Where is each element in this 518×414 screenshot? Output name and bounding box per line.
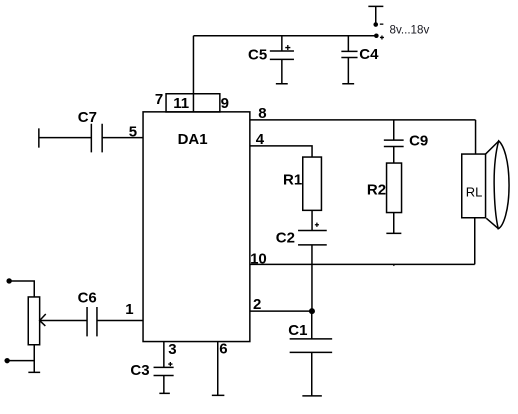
- svg-text:C9: C9: [409, 132, 428, 149]
- pin 2 wire: [250, 310, 312, 312]
- svg-text:7: 7: [155, 91, 163, 108]
- capacitor C2 plates: [298, 231, 327, 245]
- capacitor C1 stem top: [311, 311, 313, 339]
- svg-text:C7: C7: [78, 109, 97, 126]
- wire C6 to potentiometer wiper: [40, 320, 87, 322]
- capacitor C2 stem bottom: [311, 245, 313, 311]
- svg-text:C3: C3: [130, 362, 149, 379]
- capacitor C4 stem top: [347, 36, 349, 52]
- pin 8 wire: [250, 119, 476, 121]
- svg-text:R2: R2: [367, 182, 386, 199]
- capacitor C3 plates: [154, 367, 174, 375]
- svg-text:5: 5: [129, 123, 137, 140]
- capacitor C5 plates: [270, 51, 294, 59]
- potentiometer body: [28, 297, 39, 345]
- wire stem from rail to pin 11 box: [192, 36, 194, 94]
- capacitor C4 plates: [341, 51, 357, 57]
- minus sign: [380, 23, 384, 25]
- ground bar below C3: [159, 392, 170, 394]
- power terminal top bar: [368, 6, 383, 24]
- svg-text:C5: C5: [248, 46, 267, 63]
- ground bar below R2: [386, 232, 401, 234]
- top pin box divider: [192, 94, 194, 112]
- capacitor C9 plates: [384, 140, 404, 146]
- pin 5 wire: [102, 137, 143, 139]
- capacitor C3 plus sign: [168, 362, 172, 366]
- pin 10 wire: [250, 263, 475, 265]
- svg-text:6: 6: [219, 340, 227, 357]
- capacitor C3 stem bottom: [163, 375, 165, 393]
- svg-text:11: 11: [173, 95, 189, 112]
- potentiometer wiper arrowhead: [40, 314, 46, 326]
- svg-text:R1: R1: [283, 171, 302, 188]
- resistor R2 stem bottom: [393, 213, 395, 234]
- capacitor C1 stem bottom: [311, 352, 313, 396]
- top pin box (pins 7-11-9): [166, 94, 220, 112]
- svg-text:C1: C1: [288, 322, 307, 339]
- svg-text:RL: RL: [466, 184, 483, 199]
- capacitor C7 input terminal bar: [38, 128, 40, 147]
- ground bar below pin 6: [212, 394, 225, 396]
- capacitor C1 plates: [290, 339, 333, 353]
- capacitor C9 stem top: [393, 120, 395, 140]
- svg-text:10: 10: [250, 251, 267, 268]
- speaker RL feed wire bottom: [474, 218, 476, 265]
- svg-text:4: 4: [256, 131, 265, 148]
- capacitor C2 plus sign: [315, 223, 319, 227]
- svg-text:DA1: DA1: [178, 131, 208, 148]
- svg-text:C4: C4: [359, 46, 379, 63]
- potentiometer bottom stem: [33, 345, 35, 373]
- capacitor C4 stem bottom: [347, 58, 349, 84]
- resistor R2 body: [387, 163, 402, 213]
- pin 3 stem: [163, 342, 165, 368]
- potentiometer top wire: [9, 281, 34, 297]
- plus terminal dot: [374, 33, 379, 38]
- capacitor C5 stem bottom: [281, 59, 283, 83]
- svg-text:8v...18v: 8v...18v: [390, 24, 430, 37]
- resistor R1 body: [303, 157, 322, 210]
- ground bar below C1: [302, 395, 322, 397]
- capacitor C7 plates: [91, 124, 102, 153]
- capacitor C5 plus sign: [285, 45, 290, 50]
- speaker RL cone rim: [494, 141, 509, 229]
- svg-text:2: 2: [253, 296, 261, 313]
- minus terminal dot: [373, 22, 378, 27]
- ground bar below potentiometer: [28, 371, 40, 373]
- input terminal dot top: [6, 278, 11, 283]
- resistor R1 stem bottom: [311, 210, 313, 230]
- pin 4 wire: [250, 146, 312, 157]
- svg-text:9: 9: [221, 95, 229, 112]
- capacitor C5 stem top: [281, 36, 283, 51]
- pin 1 wire: [97, 320, 143, 322]
- speaker RL cone lines: [486, 141, 499, 228]
- IC DA1 body: [143, 112, 250, 342]
- input terminal dot bottom: [4, 358, 9, 363]
- capacitor C7 left wire: [39, 137, 92, 139]
- ground bar below C5: [276, 83, 288, 85]
- svg-text:3: 3: [168, 341, 176, 358]
- svg-text:8: 8: [258, 105, 266, 122]
- power rail wire: [193, 35, 376, 37]
- plus sign: [380, 35, 384, 39]
- junction dot pin2/C2/C1: [309, 308, 315, 314]
- speaker RL body: [462, 154, 486, 218]
- svg-text:C2: C2: [276, 229, 295, 246]
- capacitor C9 stem bottom: [393, 146, 395, 163]
- ground bar below C4: [342, 83, 354, 85]
- input terminal bottom wire: [7, 360, 34, 362]
- speaker RL feed wire top: [475, 120, 477, 154]
- small tick on pin 10 wire: [393, 264, 395, 266]
- capacitor C6 plates: [87, 307, 97, 336]
- svg-text:1: 1: [125, 301, 133, 318]
- svg-text:C6: C6: [78, 290, 97, 307]
- pin 6 stem: [217, 342, 219, 396]
